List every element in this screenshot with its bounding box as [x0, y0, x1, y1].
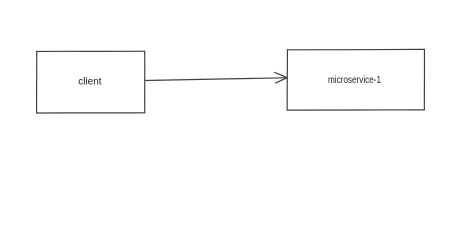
wire arrow shaft client -> microservice-1 [145, 78, 287, 81]
arrowhead at microservice-1 [275, 72, 288, 83]
svg-text:client: client [78, 76, 101, 87]
box microservice-1 [287, 49, 424, 110]
box client [37, 51, 145, 113]
svg-text:microservice-1: microservice-1 [328, 75, 381, 86]
